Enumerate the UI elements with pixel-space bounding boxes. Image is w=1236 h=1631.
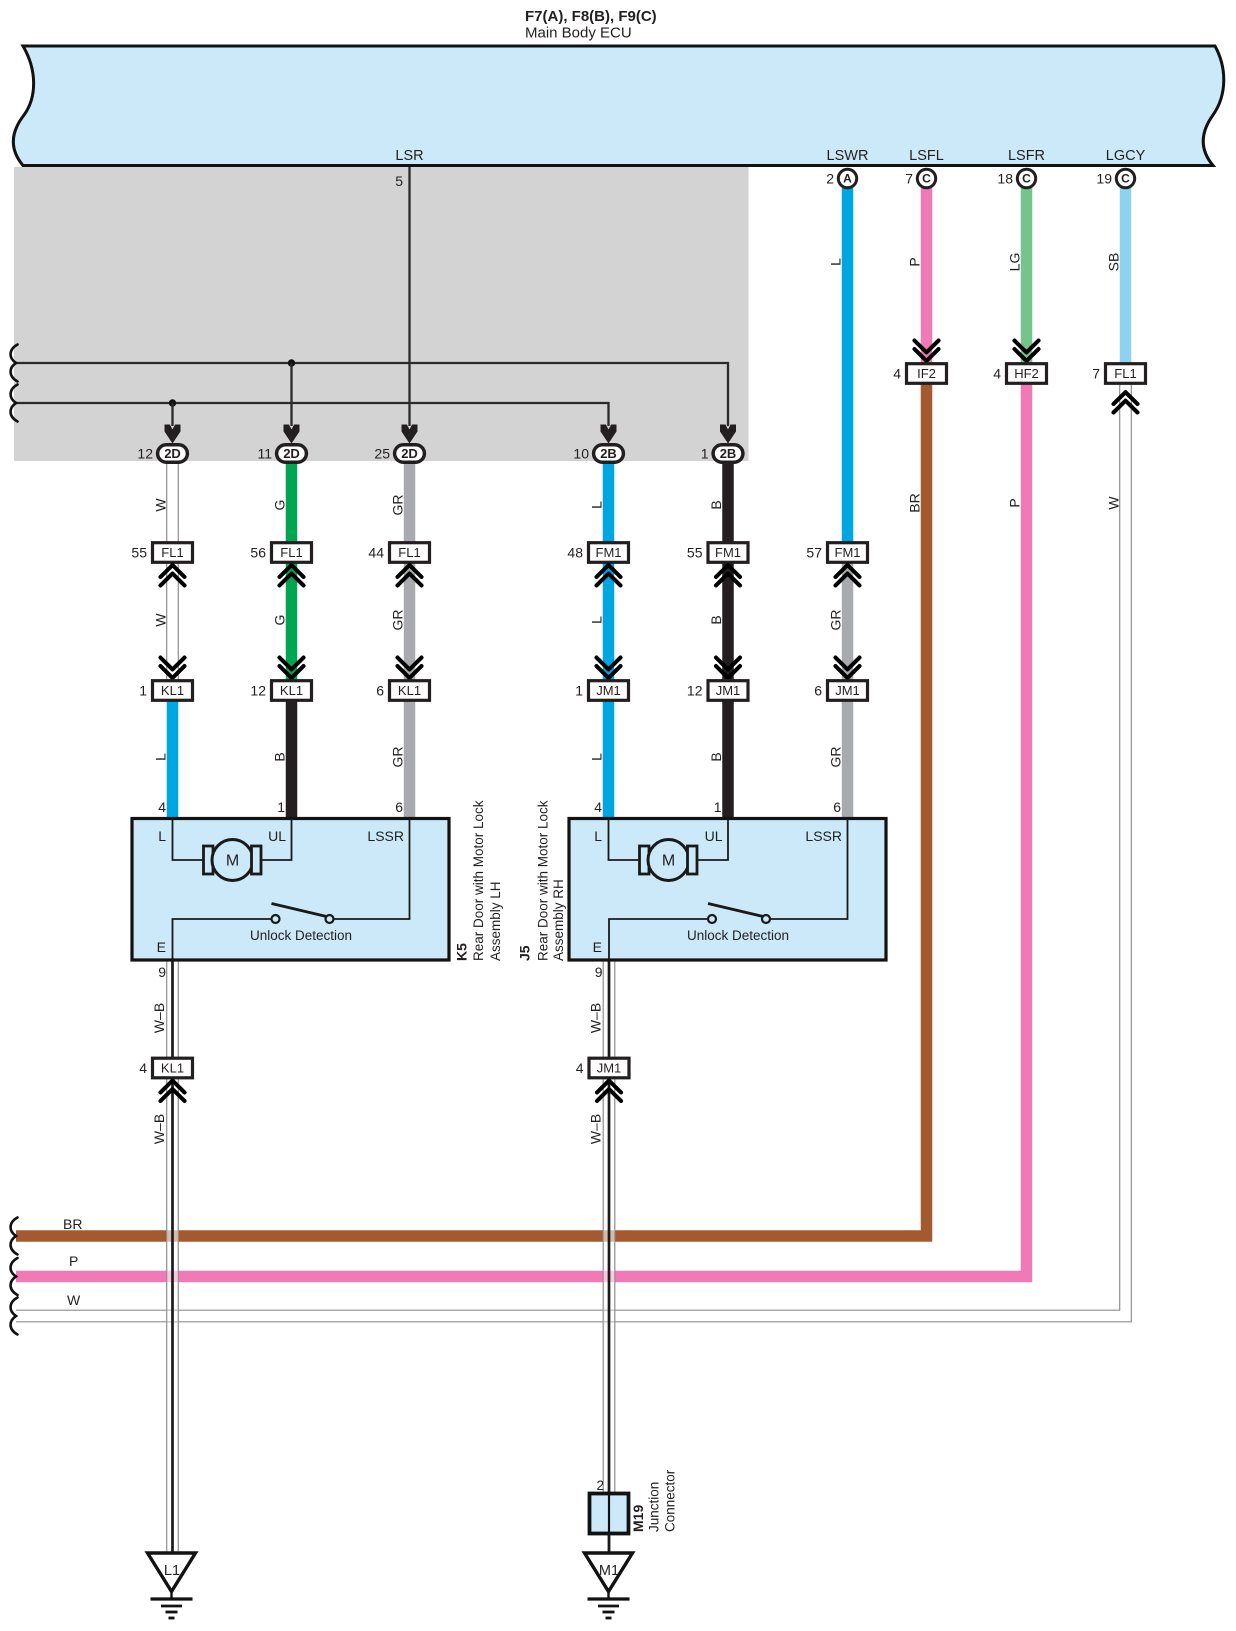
pin A-2 (LSWR) — [838, 169, 856, 187]
arrow into connector 2D-12 — [165, 425, 181, 444]
svg-text:7: 7 — [1092, 366, 1100, 382]
wire bus2 (to 2B-10) — [16, 403, 609, 426]
connector FL1 pin44 — [390, 543, 430, 563]
svg-text:44: 44 — [368, 545, 384, 561]
J5 Rear Door with Motor Lock Assembly RH block — [569, 819, 886, 961]
K5 internal wire L to motor — [173, 819, 204, 861]
svg-text:9: 9 — [595, 964, 603, 980]
K5 internal wire motor to UL — [261, 819, 292, 861]
svg-text:Rear Door with Motor Lock: Rear Door with Motor Lock — [536, 800, 551, 961]
wire W-B (K5 pin9 to KL1-4) — [166, 960, 179, 1553]
connector FM1 pin57 — [828, 543, 868, 563]
svg-text:UL: UL — [705, 828, 723, 844]
J5 internal wire LSSR to switch — [770, 819, 848, 920]
svg-text:P: P — [907, 257, 923, 266]
svg-text:L: L — [594, 828, 602, 844]
svg-text:FM1: FM1 — [835, 545, 861, 560]
wire crossing BR over W-B — [604, 1230, 614, 1242]
svg-text:2B: 2B — [600, 446, 617, 461]
wire GR (2D-25 to FL1-44) — [404, 461, 416, 546]
ECU U1 Main Body ECU block — [13, 46, 1223, 166]
J5 motor M — [648, 840, 689, 881]
svg-text:Connector: Connector — [663, 1469, 678, 1532]
connector mate chevrons — [836, 658, 860, 678]
svg-text:6: 6 — [814, 683, 822, 699]
wire W-B (J5 pin9 to M19) — [603, 960, 616, 1494]
svg-text:W–B: W–B — [588, 1114, 604, 1144]
svg-text:2: 2 — [826, 171, 834, 187]
svg-text:FL1: FL1 — [280, 545, 302, 560]
connector mate chevrons HF2 — [1015, 341, 1039, 361]
svg-text:C: C — [1121, 172, 1130, 186]
svg-text:1: 1 — [701, 446, 709, 462]
svg-text:FL1: FL1 — [161, 545, 183, 560]
svg-text:10: 10 — [573, 446, 589, 462]
svg-text:LSSR: LSSR — [805, 828, 842, 844]
svg-text:4: 4 — [576, 1060, 584, 1076]
svg-text:W: W — [1106, 496, 1122, 510]
svg-text:L: L — [589, 501, 605, 509]
svg-text:2D: 2D — [283, 446, 300, 461]
connector mate chevrons FL1-7 — [1114, 392, 1138, 412]
wire GR (KL1-6 to K5 pin6) — [404, 696, 416, 820]
wire BR (IF2-4 to off-page) — [16, 383, 927, 1236]
pin C-18 (LSFR) — [1017, 169, 1035, 187]
svg-text:4: 4 — [139, 1060, 147, 1076]
svg-text:JM1: JM1 — [835, 683, 860, 698]
svg-text:12: 12 — [137, 446, 153, 462]
svg-text:IF2: IF2 — [917, 366, 936, 381]
connector mate chevrons — [398, 658, 422, 678]
wire crossing P over W-B — [604, 1271, 614, 1283]
svg-text:L: L — [828, 258, 844, 266]
svg-text:L: L — [158, 828, 166, 844]
svg-text:Unlock Detection: Unlock Detection — [250, 928, 352, 943]
svg-text:56: 56 — [250, 545, 266, 561]
wire crossing W over W-B — [167, 1309, 178, 1311]
J5 motor brush right — [688, 846, 698, 874]
wire W (FL1-7 to off-page) — [16, 383, 1126, 1316]
svg-text:1: 1 — [277, 799, 285, 815]
svg-text:L1: L1 — [164, 1563, 180, 1579]
svg-text:LSWR: LSWR — [827, 148, 869, 164]
svg-text:P: P — [1007, 498, 1023, 507]
off-page marker P — [11, 1258, 18, 1295]
connector mate chevrons — [836, 565, 860, 585]
connector IF2 pin4 — [907, 364, 947, 384]
connector mate chevrons JM1-4 — [597, 1081, 621, 1101]
K5 motor brush left — [204, 846, 214, 874]
ground L1 — [148, 1553, 196, 1592]
K5 internal wire switch to E — [173, 919, 272, 960]
J5 internal wire motor to UL — [697, 819, 728, 861]
M19 Junction Connector — [590, 1494, 629, 1534]
svg-text:KL1: KL1 — [161, 683, 184, 698]
svg-text:4: 4 — [158, 799, 166, 815]
svg-text:UL: UL — [268, 828, 286, 844]
connector JM1 pin12 — [708, 681, 748, 701]
svg-text:2B: 2B — [720, 446, 737, 461]
svg-text:SB: SB — [1106, 253, 1122, 272]
connector FL1 pin56 — [272, 543, 312, 563]
pin C-7 (LSFL) — [917, 169, 935, 187]
svg-text:9: 9 — [158, 964, 166, 980]
K5 switch contact right — [326, 915, 334, 923]
wire crossing W over W-B — [604, 1309, 615, 1311]
svg-text:Assembly LH: Assembly LH — [488, 881, 503, 961]
J5 internal wire switch to E — [609, 919, 708, 960]
wire P (HF2-4 to off-page) — [16, 383, 1027, 1277]
J5 motor brush left — [640, 846, 650, 874]
svg-text:JM1: JM1 — [716, 683, 741, 698]
connector KL1 pin4 — [153, 1058, 193, 1078]
svg-text:B: B — [708, 752, 724, 761]
arrow into connector 2D-11 — [284, 425, 300, 444]
wire crossing P over W-B — [167, 1271, 177, 1283]
svg-text:L: L — [153, 753, 169, 761]
wire GR (FL1-44 to KL1-6) — [404, 559, 416, 684]
svg-text:L: L — [589, 616, 605, 624]
wire GR (JM1-6 to J5 pin6) — [842, 696, 854, 820]
svg-text:M19: M19 — [630, 1505, 646, 1532]
connector mate chevrons — [161, 565, 185, 585]
wire L (FM1-48 to JM1-1) — [603, 559, 615, 684]
svg-text:55: 55 — [687, 545, 703, 561]
svg-text:6: 6 — [376, 683, 384, 699]
junction node on bus2 — [169, 399, 176, 406]
svg-text:2D: 2D — [164, 446, 181, 461]
wire M19 to ground M1 — [608, 1534, 611, 1555]
wire LSR pin5 to connector 2D-25 — [408, 167, 410, 426]
svg-text:2D: 2D — [401, 446, 418, 461]
svg-text:7: 7 — [905, 171, 913, 187]
svg-text:B: B — [708, 615, 724, 624]
connector KL1 pin6 — [390, 681, 430, 701]
svg-text:KL1: KL1 — [280, 683, 303, 698]
connector JM1 pin6 — [828, 681, 868, 701]
connector mate chevrons — [161, 658, 185, 678]
J5 unlock switch blade — [708, 904, 763, 917]
svg-text:W–B: W–B — [151, 1003, 167, 1033]
svg-text:LSSR: LSSR — [367, 828, 404, 844]
wire crossing BR over W-B — [167, 1230, 177, 1242]
connector mate chevrons — [280, 565, 304, 585]
connector mate chevrons — [716, 658, 740, 678]
svg-text:KL1: KL1 — [161, 1061, 184, 1076]
arrow into connector 2B-10 — [601, 425, 617, 444]
svg-text:E: E — [157, 939, 166, 955]
wire W-B stripe (K5 side) — [171, 960, 174, 1553]
wire B (FM1-55 to JM1-12) — [722, 559, 734, 684]
wire L (JM1-1 to J5 pin4) — [603, 696, 615, 820]
svg-text:BR: BR — [907, 493, 923, 512]
wire W (FL1-55 to KL1-1) — [166, 559, 179, 684]
K5 switch contact left — [272, 915, 280, 923]
svg-text:48: 48 — [567, 545, 583, 561]
off-page marker BR — [11, 1218, 18, 1255]
wire W (2D-12 to FL1-55) — [166, 461, 179, 546]
svg-text:1: 1 — [575, 683, 583, 699]
svg-text:J5: J5 — [517, 945, 533, 961]
svg-text:1: 1 — [139, 683, 147, 699]
wire B (JM1-12 to J5 pin1) — [722, 696, 734, 820]
svg-text:G: G — [272, 615, 288, 626]
connector 2B pin1 — [713, 445, 743, 463]
connector FL1 pin55 — [153, 543, 193, 563]
connector HF2 pin4 — [1007, 364, 1047, 384]
ground M1 — [585, 1553, 633, 1592]
wire B (KL1-12 to K5 pin1) — [286, 696, 298, 820]
svg-text:4: 4 — [594, 799, 602, 815]
svg-text:GR: GR — [390, 747, 406, 768]
svg-text:M1: M1 — [599, 1563, 619, 1579]
svg-text:W: W — [67, 1292, 81, 1308]
wire B (2B-1 to FM1-55) — [722, 461, 734, 546]
wire stub to 2D-12 — [171, 403, 173, 426]
svg-text:E: E — [593, 939, 602, 955]
svg-text:Rear Door with Motor Lock: Rear Door with Motor Lock — [471, 800, 486, 961]
K5 unlock switch blade — [272, 904, 327, 917]
svg-text:4: 4 — [993, 366, 1001, 382]
off-page marker W — [11, 1298, 18, 1335]
svg-text:M: M — [226, 853, 239, 870]
wire G (2D-11 to FL1-56) — [286, 461, 298, 546]
off-page marker bus1 — [11, 345, 18, 382]
svg-text:6: 6 — [833, 799, 841, 815]
svg-text:LG: LG — [1007, 253, 1023, 272]
J5 internal wire L to motor — [609, 819, 640, 861]
svg-text:Main Body ECU: Main Body ECU — [525, 25, 632, 42]
connector JM1 pin4 — [589, 1058, 629, 1078]
internal harness shield region — [14, 167, 749, 461]
svg-text:L: L — [589, 753, 605, 761]
svg-text:FL1: FL1 — [1114, 366, 1136, 381]
svg-text:JM1: JM1 — [596, 683, 621, 698]
J5 switch contact left — [708, 915, 716, 923]
wire bus1 (to 2B-1) — [16, 363, 728, 426]
K5 Rear Door with Motor Lock Assembly LH block — [132, 819, 449, 961]
connector FM1 pin55 — [708, 543, 748, 563]
wire L (2B-10 to FM1-48) — [603, 461, 615, 546]
connector mate chevrons — [398, 565, 422, 585]
arrow into connector 2D-25 — [402, 425, 418, 444]
connector KL1 pin12 — [272, 681, 312, 701]
svg-text:25: 25 — [374, 446, 390, 462]
svg-text:G: G — [272, 500, 288, 511]
wire LG (LSFR-18 to HF2-4) — [1021, 188, 1033, 364]
connector KL1 pin1 — [153, 681, 193, 701]
svg-text:P: P — [69, 1253, 78, 1269]
K5 motor M — [212, 840, 253, 881]
svg-text:LSR: LSR — [395, 148, 423, 164]
svg-text:Unlock Detection: Unlock Detection — [687, 928, 789, 943]
svg-text:5: 5 — [395, 173, 403, 189]
K5 motor brush right — [252, 846, 262, 874]
svg-text:12: 12 — [687, 683, 703, 699]
J5 switch contact right — [762, 915, 770, 923]
svg-text:BR: BR — [63, 1216, 82, 1232]
svg-text:K5: K5 — [454, 943, 470, 961]
svg-text:FM1: FM1 — [715, 545, 741, 560]
svg-text:FM1: FM1 — [596, 545, 622, 560]
connector 2D pin25 — [395, 445, 425, 463]
svg-text:1: 1 — [714, 799, 722, 815]
connector 2D pin12 — [158, 445, 188, 463]
svg-text:HF2: HF2 — [1014, 366, 1039, 381]
connector FM1 pin48 — [589, 543, 629, 563]
svg-text:19: 19 — [1096, 171, 1112, 187]
svg-text:KL1: KL1 — [398, 683, 421, 698]
svg-text:JM1: JM1 — [597, 1061, 622, 1076]
wire SB (LGCY-19 to FL1-7) — [1120, 188, 1132, 364]
svg-text:A: A — [843, 172, 852, 186]
connector mate chevrons — [716, 565, 740, 585]
arrow into connector 2B-1 — [720, 425, 736, 444]
svg-text:4: 4 — [893, 366, 901, 382]
svg-text:W: W — [153, 613, 169, 627]
svg-text:6: 6 — [395, 799, 403, 815]
svg-text:GR: GR — [828, 747, 844, 768]
wire GR (FM1-57 to JM1-6) — [842, 559, 854, 684]
svg-text:Junction: Junction — [647, 1482, 662, 1532]
svg-text:Assembly RH: Assembly RH — [551, 879, 566, 961]
svg-text:LSFL: LSFL — [909, 148, 944, 164]
K5 internal wire LSSR to switch — [334, 819, 410, 920]
svg-text:F7(A), F8(B), F9(C): F7(A), F8(B), F9(C) — [525, 8, 657, 25]
svg-text:GR: GR — [828, 610, 844, 631]
connector mate chevrons — [597, 565, 621, 585]
svg-text:B: B — [272, 752, 288, 761]
svg-text:18: 18 — [997, 171, 1013, 187]
svg-text:C: C — [1022, 172, 1031, 186]
svg-text:C: C — [922, 172, 931, 186]
svg-text:GR: GR — [390, 495, 406, 516]
connector JM1 pin1 — [589, 681, 629, 701]
off-page marker bus2 — [11, 385, 18, 422]
svg-text:12: 12 — [250, 683, 266, 699]
svg-text:M: M — [662, 853, 675, 870]
svg-text:GR: GR — [390, 610, 406, 631]
svg-text:LSFR: LSFR — [1008, 148, 1045, 164]
svg-text:W–B: W–B — [588, 1003, 604, 1033]
connector FL1 pin7 — [1106, 364, 1146, 384]
connector 2D pin11 — [277, 445, 307, 463]
pin C-19 (LGCY) — [1116, 169, 1134, 187]
wire G (FL1-56 to KL1-12) — [286, 559, 298, 684]
svg-text:LGCY: LGCY — [1106, 148, 1146, 164]
wire P (LSFL-7 to IF2-4) — [921, 188, 933, 364]
svg-text:FL1: FL1 — [398, 545, 420, 560]
wire stub to 2D-11 — [290, 363, 292, 426]
connector 2B pin10 — [594, 445, 624, 463]
svg-text:W–B: W–B — [151, 1114, 167, 1144]
connector mate chevrons — [597, 658, 621, 678]
wire L (KL1-1 to K5 pin4) — [167, 696, 179, 820]
connector mate chevrons IF2 — [915, 341, 939, 361]
svg-text:55: 55 — [131, 545, 147, 561]
svg-text:W: W — [153, 498, 169, 512]
connector mate chevrons — [280, 658, 304, 678]
wire L (LSWR-2 to FM1-57) — [842, 188, 854, 546]
svg-text:B: B — [708, 500, 724, 509]
connector mate chevrons KL1-4 — [161, 1081, 185, 1101]
junction node on bus1 — [288, 359, 295, 366]
svg-text:57: 57 — [806, 545, 822, 561]
svg-text:11: 11 — [257, 446, 272, 462]
wire W-B stripe (J5 side) — [608, 960, 611, 1494]
svg-text:2: 2 — [596, 1478, 604, 1493]
